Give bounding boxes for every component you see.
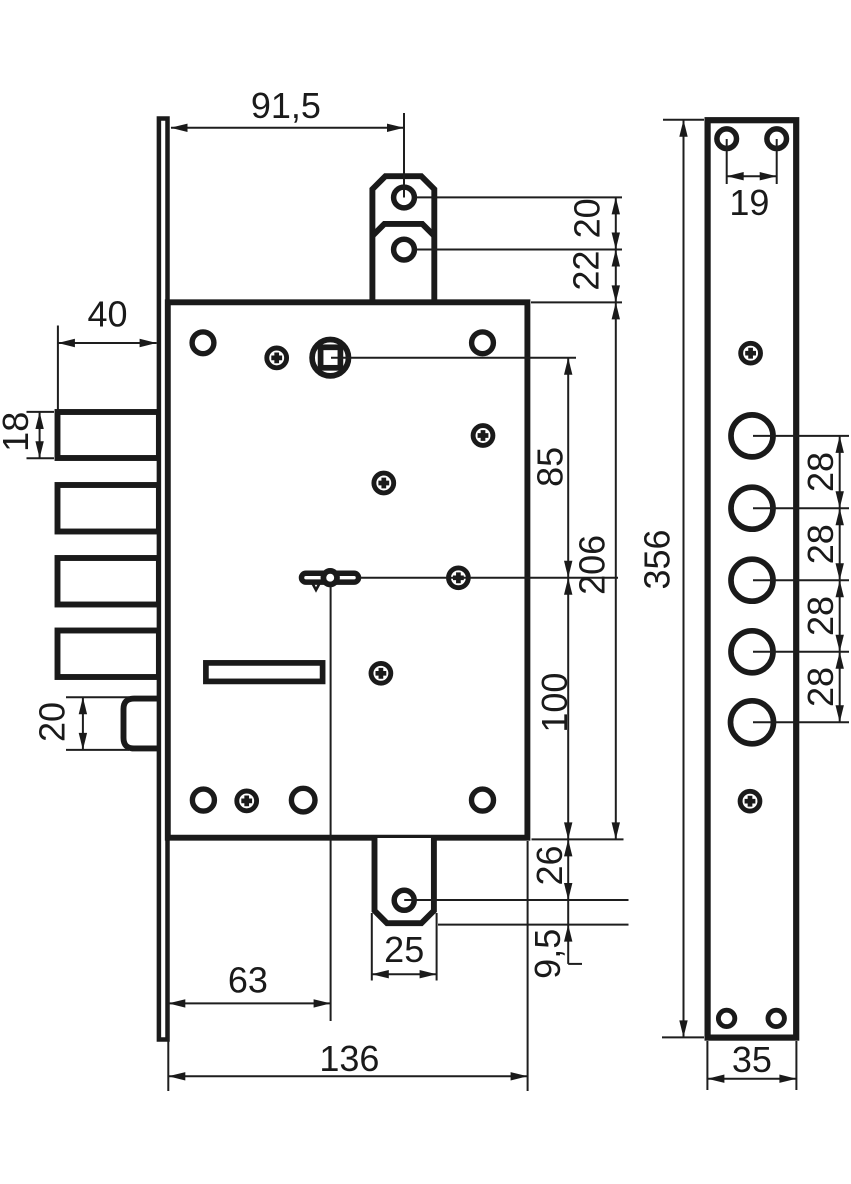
tail hook of 9,5 bbox=[568, 963, 582, 965]
faceplate big hole 5 bbox=[731, 701, 774, 744]
arrows 19 bbox=[727, 172, 744, 180]
faceplate big hole 4 bbox=[731, 631, 773, 673]
deadbolt 1 (left view) bbox=[58, 412, 159, 458]
faceplate edge-on (left view) bbox=[159, 119, 168, 1040]
ext line body top edge right bbox=[531, 301, 622, 303]
right view faceplate bbox=[708, 120, 797, 1037]
arrows 91,5 bbox=[171, 124, 188, 132]
latch bolt (rounded) bbox=[124, 699, 159, 749]
screw S5 (380.9,673.3) bbox=[371, 663, 391, 683]
hole in bottom extension bbox=[394, 890, 414, 910]
arrows 25 bbox=[372, 970, 389, 978]
ext lines 19 bbox=[726, 139, 728, 184]
svg-text:18: 18 bbox=[0, 412, 36, 452]
main lock body bbox=[168, 302, 528, 837]
ext lines from faceplate big holes bbox=[753, 435, 849, 437]
body hole top-left bbox=[192, 332, 214, 354]
svg-text:28: 28 bbox=[800, 596, 841, 636]
key cylinder cam bar bbox=[302, 573, 359, 582]
dim line 19 bbox=[727, 175, 777, 177]
svg-text:25: 25 bbox=[384, 929, 424, 970]
faceplate screw top bbox=[741, 343, 761, 363]
faceplate top hole left bbox=[717, 129, 737, 149]
hole in top extension (lower) bbox=[394, 239, 415, 260]
dim line 20-22-206 column bbox=[615, 197, 617, 839]
body hole bottom-middle bbox=[291, 788, 315, 812]
arrows 40 bbox=[58, 339, 75, 347]
ext line from bottom ext hole bbox=[404, 899, 628, 901]
ext line body bottom edge right bbox=[532, 838, 624, 840]
ext line cam centerline down bbox=[330, 586, 332, 1021]
svg-text:9,5: 9,5 bbox=[527, 929, 568, 979]
body hole bottom-right bbox=[472, 789, 494, 811]
faceplate bottom hole right bbox=[768, 1010, 784, 1026]
arrows 35 bbox=[707, 1075, 724, 1083]
dim line 20 latch bbox=[82, 697, 84, 750]
screw S4 (458.4,577.8) bbox=[449, 568, 469, 588]
faceplate bottom hole left bbox=[718, 1010, 734, 1026]
faceplate screw bottom bbox=[740, 791, 760, 811]
ext lines 18 bbox=[27, 411, 55, 413]
svg-text:20: 20 bbox=[567, 198, 608, 238]
key cylinder cam circle bbox=[323, 571, 337, 585]
ext line 136 left bbox=[167, 841, 169, 1091]
svg-text:356: 356 bbox=[637, 529, 678, 589]
svg-text:19: 19 bbox=[729, 182, 769, 223]
faceplate big hole 3 bbox=[731, 559, 773, 601]
ext lines 20 latch bbox=[66, 696, 129, 698]
top extension tab (latch guide) outline bbox=[372, 176, 434, 302]
ARROWS bbox=[35, 120, 844, 1083]
faceplate big hole 2 bbox=[731, 487, 773, 529]
ext line vertical 40 left bbox=[57, 326, 59, 412]
body hole top-right bbox=[472, 332, 494, 354]
screw S1 (276.7,357.9) bbox=[267, 348, 287, 368]
dim line 18 bbox=[39, 412, 41, 458]
svg-text:206: 206 bbox=[572, 535, 613, 595]
ext lines 35 bbox=[706, 1041, 708, 1090]
arrows 20 latch bbox=[79, 697, 87, 714]
dim line 40 bbox=[58, 342, 157, 344]
arrows 136 bbox=[168, 1072, 185, 1080]
ext line vertical 91,5 right bbox=[403, 113, 405, 198]
svg-text:28: 28 bbox=[800, 524, 841, 564]
dim line 25 bbox=[372, 973, 437, 975]
slot rectangle in body bbox=[206, 663, 323, 682]
ext lines 25 bbox=[371, 913, 373, 981]
svg-text:63: 63 bbox=[228, 960, 268, 1001]
svg-text:22: 22 bbox=[565, 251, 606, 291]
spindle hole circle bbox=[312, 340, 348, 376]
deadbolt 3 bbox=[58, 558, 159, 605]
svg-text:91,5: 91,5 bbox=[251, 85, 321, 126]
ext line from top ext upper hole bbox=[416, 196, 622, 198]
screw S3 (383.8,483) bbox=[374, 473, 394, 493]
ext line 356 top bbox=[663, 119, 704, 121]
faceplate big hole 1 bbox=[731, 415, 773, 457]
deadbolt 4 bbox=[58, 631, 159, 678]
ext line from top ext lower hole bbox=[416, 249, 622, 251]
hole in top extension (upper) bbox=[394, 187, 415, 208]
spindle square hole bbox=[321, 347, 341, 368]
dim line 35 bbox=[707, 1078, 796, 1080]
arrows 356 bbox=[679, 120, 687, 137]
arrows 18 bbox=[35, 412, 43, 429]
ext line bottom ext lower edge bbox=[438, 924, 629, 926]
svg-text:28: 28 bbox=[800, 667, 841, 707]
arrows 85/100/26/9,5 column bbox=[564, 358, 572, 375]
dim line 136 bbox=[168, 1075, 527, 1077]
arrows 63 bbox=[168, 999, 185, 1007]
screw S6 (246.7,800.9) bbox=[237, 791, 257, 811]
dim line 356 bbox=[683, 120, 685, 1038]
svg-text:20: 20 bbox=[32, 702, 73, 742]
ext line from cam center bbox=[360, 577, 618, 579]
bottom extension tab outline bbox=[375, 838, 434, 923]
ext line 356 bottom bbox=[662, 1036, 704, 1038]
svg-text:40: 40 bbox=[87, 294, 127, 335]
dim line 91,5 bbox=[171, 127, 404, 129]
svg-text:100: 100 bbox=[534, 673, 575, 733]
dim line 85-100-26-9,5 column bbox=[567, 358, 569, 964]
top extension tab 2 chamfer line bbox=[372, 224, 434, 236]
svg-text:85: 85 bbox=[530, 447, 571, 487]
arrows 28 column bbox=[836, 436, 844, 453]
svg-text:136: 136 bbox=[319, 1038, 379, 1079]
ext line from spindle center bbox=[331, 357, 576, 359]
dim line 63 bbox=[168, 1002, 330, 1004]
dim line 28 column bbox=[839, 436, 841, 722]
deadbolt 2 bbox=[58, 485, 159, 532]
body hole bottom-left bbox=[192, 789, 214, 811]
svg-text:26: 26 bbox=[529, 845, 570, 885]
svg-text:35: 35 bbox=[732, 1039, 772, 1080]
svg-text:28: 28 bbox=[800, 452, 841, 492]
cam notch bbox=[313, 584, 320, 591]
faceplate top hole right bbox=[767, 129, 787, 149]
ext line 136 right bbox=[527, 841, 529, 1091]
arrows 20/22/206 column bbox=[612, 197, 620, 214]
screw S2 (483,435.5) bbox=[473, 426, 493, 446]
